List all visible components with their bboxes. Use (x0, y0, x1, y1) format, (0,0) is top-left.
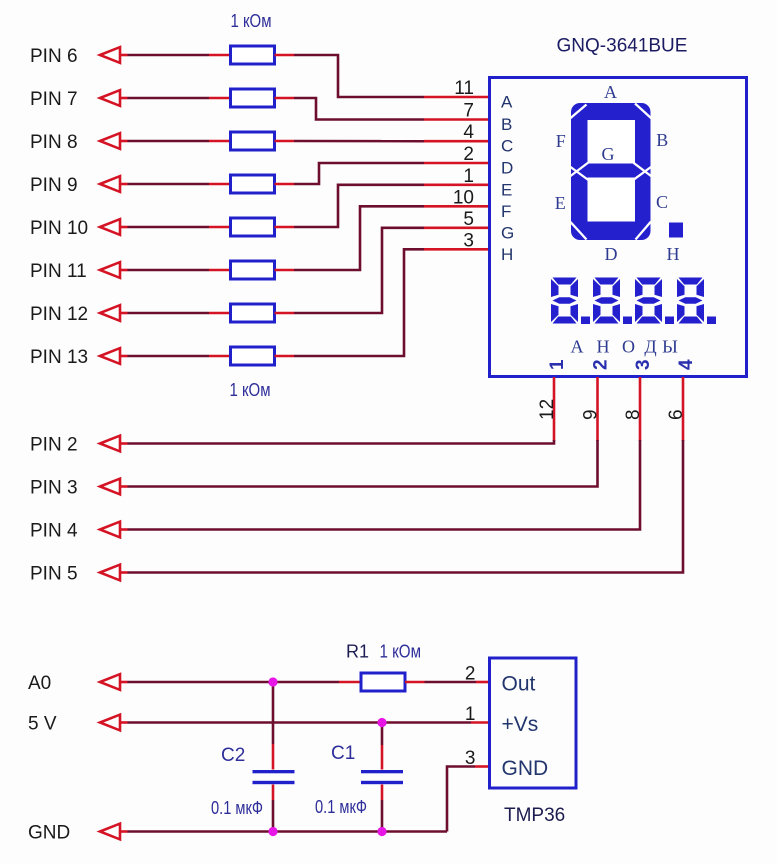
svg-text:F: F (556, 131, 566, 151)
resistor pin right (row PIN 11) (275, 269, 295, 272)
capacitor C2 (253, 770, 295, 773)
wire A0 to R1 (128, 681, 340, 684)
resistor pin left (row PIN 9) (209, 183, 231, 186)
arrow connector PIN 9 (100, 176, 120, 192)
junction 5V/C1 (377, 718, 386, 727)
arrow connector PIN 7 (100, 90, 120, 106)
resistor 1 кОм (row PIN 7) (231, 89, 275, 107)
wire PIN 12 to resistor (128, 312, 210, 315)
svg-text:Ы: Ы (662, 337, 678, 357)
svg-text:H: H (667, 244, 680, 264)
pin stub GND (120, 830, 128, 833)
wire PIN 12 to display pin G (294, 228, 424, 313)
svg-text:0.1 мкФ: 0.1 мкФ (211, 798, 263, 818)
svg-text:E: E (501, 180, 512, 199)
svg-text:A: A (501, 93, 513, 112)
wire PIN 11 to display pin F (294, 206, 424, 270)
pin stub PIN 6 (120, 54, 128, 57)
wire PIN 10 to resistor (128, 226, 210, 229)
wire A0 junction down to C2 (272, 682, 275, 744)
wire GND rail to TMP36 GND (447, 767, 475, 832)
arrow connector PIN 4 (100, 522, 120, 538)
pin stub A0 (120, 681, 128, 684)
svg-text:GND: GND (502, 757, 549, 780)
TMP36 pin 1 lead (471, 721, 490, 724)
big seven-segment digit (569, 103, 654, 240)
arrow connector GND (100, 824, 120, 840)
svg-text:2: 2 (463, 144, 474, 165)
svg-text:9: 9 (581, 409, 602, 420)
resistor pin left (row PIN 10) (209, 226, 231, 229)
display pin E lead (424, 184, 489, 187)
wire PIN 7 to display pin B (294, 98, 424, 120)
arrow connector 5 V (100, 715, 120, 731)
wire PIN 8 to resistor (128, 140, 210, 143)
arrow connector PIN 10 (100, 219, 120, 235)
small digit 8 #3 (635, 278, 662, 324)
svg-text:PIN 10: PIN 10 (30, 218, 88, 239)
svg-text:2: 2 (465, 664, 476, 685)
resistor 1 кОм (row PIN 12) (231, 304, 275, 322)
svg-text:1: 1 (465, 704, 476, 725)
wire PIN 9 to resistor (128, 183, 210, 186)
pin stub PIN 7 (120, 97, 128, 100)
svg-text:6: 6 (666, 409, 687, 420)
svg-text:TMP36: TMP36 (504, 805, 565, 826)
svg-text:12: 12 (537, 399, 558, 420)
svg-text:PIN 4: PIN 4 (30, 521, 78, 542)
resistor 1 кОм (row PIN 10) (231, 218, 275, 236)
pin stub PIN 12 (120, 312, 128, 315)
display anode pin 1 lead (553, 377, 556, 441)
display pin H lead (424, 248, 489, 251)
svg-text:8: 8 (623, 409, 644, 420)
resistor R1 pin right (405, 681, 425, 684)
pin stub PIN 5 (120, 571, 128, 574)
TMP36 pin 2 lead (476, 681, 490, 684)
wire 5V junction down to C1 (381, 723, 384, 746)
wire PIN 3 to anode 2 (128, 440, 598, 487)
wire PIN 13 to display pin H (294, 249, 424, 356)
resistor pin left (row PIN 7) (209, 97, 231, 100)
svg-text:F: F (501, 202, 511, 221)
decimal point H of big digit (669, 223, 683, 238)
svg-text:R1: R1 (346, 642, 369, 662)
resistor R1 1 кОм (361, 673, 405, 691)
wire PIN 10 to display pin E (294, 185, 424, 227)
display pin B lead (424, 118, 489, 121)
svg-text:11: 11 (454, 78, 474, 99)
svg-text:C2: C2 (221, 745, 245, 766)
small decimal point #2 (623, 317, 632, 325)
wire PIN 5 to anode 4 (128, 440, 684, 573)
svg-text:2: 2 (591, 359, 612, 370)
wire PIN 7 to resistor (128, 97, 210, 100)
display U1 GNQ-3641BUE body (490, 78, 747, 377)
TMP36 pin 3 lead (475, 765, 490, 768)
svg-text:GNQ-3641BUE: GNQ-3641BUE (557, 36, 688, 57)
svg-text:PIN 11: PIN 11 (30, 261, 87, 282)
svg-text:PIN 13: PIN 13 (30, 347, 88, 368)
wire PIN 8 to display pin C (294, 140, 424, 143)
display pin A lead (424, 96, 489, 99)
svg-text:D: D (501, 159, 513, 178)
resistor pin right (row PIN 12) (275, 312, 295, 315)
svg-text:PIN 3: PIN 3 (30, 478, 78, 499)
resistor 1 кОм (row PIN 8) (231, 132, 275, 150)
wire PIN 11 to resistor (128, 269, 210, 272)
resistor pin right (row PIN 10) (275, 226, 295, 229)
svg-text:3: 3 (633, 359, 654, 370)
resistor pin left (row PIN 6) (209, 54, 231, 57)
svg-text:B: B (656, 130, 668, 150)
wire R1 to TMP36 Out (425, 681, 477, 684)
resistor 1 кОм (row PIN 11) (231, 261, 275, 279)
display pin F lead (424, 205, 489, 208)
svg-text:4: 4 (676, 359, 697, 370)
resistor pin right (row PIN 8) (275, 140, 295, 143)
small decimal point #3 (665, 317, 674, 325)
svg-text:G: G (501, 223, 514, 242)
svg-text:5 V: 5 V (28, 714, 57, 735)
arrow connector PIN 5 (100, 565, 120, 581)
svg-text:C: C (501, 137, 513, 156)
svg-text:+Vs: +Vs (502, 713, 539, 736)
pin stub PIN 3 (120, 485, 128, 488)
svg-text:E: E (555, 193, 566, 213)
capacitor C1 (361, 770, 403, 773)
sensor U2 TMP36 body (490, 658, 577, 788)
svg-text:A0: A0 (28, 673, 51, 694)
pin stub PIN 2 (120, 442, 128, 445)
resistor R1 pin left (339, 681, 361, 684)
resistor 1 кОм (row PIN 13) (231, 347, 275, 365)
wire GND rail (128, 830, 448, 833)
small digit 8 #2 (593, 278, 620, 324)
svg-text:10: 10 (453, 187, 474, 208)
resistor pin right (row PIN 9) (275, 183, 295, 186)
svg-text:А: А (571, 337, 584, 357)
svg-text:C: C (656, 192, 668, 212)
svg-text:D: D (605, 244, 618, 264)
svg-text:PIN 5: PIN 5 (30, 564, 78, 585)
wire PIN 9 to display pin D (294, 163, 424, 184)
svg-text:1: 1 (547, 359, 568, 370)
svg-text:1 кОм: 1 кОм (230, 380, 271, 400)
svg-text:3: 3 (463, 230, 474, 251)
svg-text:GND: GND (28, 823, 70, 844)
wire PIN 13 to resistor (128, 355, 210, 358)
arrow connector PIN 3 (100, 479, 120, 495)
svg-text:0.1 мкФ: 0.1 мкФ (315, 797, 367, 817)
small digit 8 #4 (677, 278, 704, 324)
arrow connector PIN 6 (100, 47, 120, 63)
small digit 8 #1 (551, 278, 578, 324)
arrow connector PIN 2 (100, 436, 120, 452)
svg-text:PIN 7: PIN 7 (30, 89, 78, 110)
display pin G lead (424, 227, 489, 230)
svg-text:Д: Д (644, 337, 656, 357)
svg-text:PIN 12: PIN 12 (30, 304, 88, 325)
display anode pin 3 lead (639, 377, 642, 441)
svg-text:A: A (604, 82, 617, 102)
svg-text:H: H (501, 245, 513, 264)
svg-text:4: 4 (463, 122, 474, 143)
junction GND/C2 (268, 827, 277, 836)
arrow connector PIN 13 (100, 348, 120, 364)
pin stub PIN 8 (120, 140, 128, 143)
svg-text:7: 7 (463, 101, 474, 122)
svg-text:3: 3 (465, 748, 476, 769)
wire PIN 2 to anode 1 (128, 440, 555, 444)
pin stub PIN 9 (120, 183, 128, 186)
small decimal point #4 (707, 317, 716, 325)
svg-text:5: 5 (463, 209, 474, 230)
arrow connector PIN 12 (100, 305, 120, 321)
resistor pin right (row PIN 13) (275, 355, 295, 358)
resistor pin left (row PIN 8) (209, 140, 231, 143)
svg-text:1 кОм: 1 кОм (380, 642, 422, 662)
display pin C lead (424, 140, 489, 143)
resistor pin left (row PIN 12) (209, 312, 231, 315)
resistor pin right (row PIN 6) (275, 54, 295, 57)
pin stub 5 V (120, 721, 128, 724)
svg-text:1 кОм: 1 кОм (231, 11, 272, 31)
wire PIN 6 to display pin A (294, 55, 424, 97)
svg-text:PIN 9: PIN 9 (30, 175, 78, 196)
svg-text:PIN 6: PIN 6 (30, 46, 78, 67)
wire PIN 4 to anode 3 (128, 440, 641, 530)
resistor pin right (row PIN 7) (275, 97, 295, 100)
svg-text:О: О (622, 337, 635, 357)
svg-text:1: 1 (463, 166, 474, 187)
svg-text:G: G (602, 144, 615, 164)
wire PIN 6 to resistor (128, 54, 210, 57)
pin stub PIN 11 (120, 269, 128, 272)
svg-text:C1: C1 (331, 743, 355, 764)
display anode pin 4 lead (682, 377, 685, 441)
pin stub PIN 13 (120, 355, 128, 358)
svg-text:Out: Out (502, 673, 536, 696)
small decimal point #1 (581, 317, 590, 325)
svg-text:B: B (501, 115, 512, 134)
svg-text:Н: Н (597, 337, 610, 357)
resistor 1 кОм (row PIN 9) (231, 175, 275, 193)
svg-text:PIN 8: PIN 8 (30, 132, 78, 153)
svg-text:PIN 2: PIN 2 (30, 435, 78, 456)
arrow connector A0 (100, 674, 120, 690)
display pin D lead (424, 162, 489, 165)
junction A0/C2 (268, 677, 277, 686)
pin stub PIN 10 (120, 226, 128, 229)
resistor pin left (row PIN 11) (209, 269, 231, 272)
resistor 1 кОм (row PIN 6) (231, 46, 275, 64)
resistor pin left (row PIN 13) (209, 355, 231, 358)
arrow connector PIN 11 (100, 262, 120, 278)
arrow connector PIN 8 (100, 133, 120, 149)
wire 5 V to TMP36 +Vs (128, 721, 472, 724)
display anode pin 2 lead (596, 377, 599, 441)
pin stub PIN 4 (120, 528, 128, 531)
junction GND/C1 (377, 827, 386, 836)
